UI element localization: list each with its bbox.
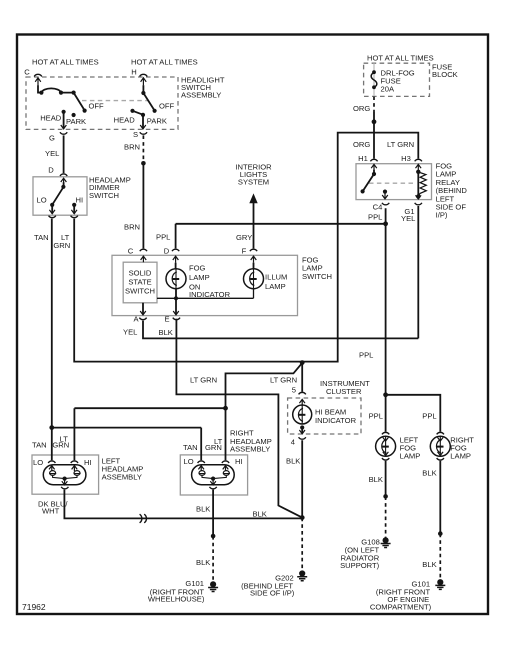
svg-text:SWITCH: SWITCH [125, 287, 155, 296]
svg-text:ASSEMBLY: ASSEMBLY [230, 444, 270, 453]
svg-text:BLK: BLK [196, 558, 210, 567]
svg-text:BLK: BLK [286, 457, 300, 466]
svg-text:5: 5 [292, 386, 296, 395]
svg-text:LO: LO [37, 196, 47, 205]
svg-text:H: H [131, 68, 136, 77]
svg-text:S: S [133, 130, 138, 139]
svg-text:71962: 71962 [22, 602, 46, 612]
svg-text:HEAD: HEAD [114, 116, 136, 125]
svg-text:PPL: PPL [156, 233, 170, 242]
svg-text:ORG: ORG [353, 104, 370, 113]
svg-text:BRN: BRN [124, 223, 140, 232]
svg-text:C: C [128, 247, 134, 256]
svg-text:GRN: GRN [205, 443, 222, 452]
svg-text:C: C [24, 68, 30, 77]
svg-text:BLK: BLK [422, 560, 436, 569]
svg-text:LT GRN: LT GRN [387, 140, 414, 149]
svg-text:SUPPORT): SUPPORT) [340, 561, 380, 570]
svg-text:G: G [49, 134, 55, 143]
svg-text:HI: HI [84, 458, 92, 467]
svg-text:HI: HI [235, 457, 243, 466]
svg-text:PPL: PPL [368, 213, 382, 222]
svg-text:LO: LO [33, 458, 43, 467]
svg-text:LAMP: LAMP [265, 282, 286, 291]
svg-text:FOG: FOG [189, 264, 206, 273]
svg-text:LAMP: LAMP [450, 452, 471, 461]
svg-text:WHT: WHT [42, 507, 60, 516]
svg-text:WHEELHOUSE): WHEELHOUSE) [148, 595, 205, 604]
svg-text:ORG: ORG [353, 140, 370, 149]
svg-text:BLK: BLK [253, 510, 267, 519]
svg-text:E: E [164, 315, 169, 324]
svg-text:H3: H3 [401, 154, 411, 163]
svg-text:ILLUM: ILLUM [265, 273, 287, 282]
svg-text:OFF: OFF [159, 102, 175, 111]
svg-text:SWITCH: SWITCH [89, 191, 119, 200]
svg-text:GRN: GRN [52, 441, 69, 450]
svg-text:HEAD: HEAD [40, 114, 62, 123]
svg-text:YEL: YEL [45, 149, 59, 158]
svg-text:LO: LO [184, 457, 194, 466]
svg-text:H1: H1 [358, 154, 368, 163]
svg-text:INDICATOR: INDICATOR [189, 290, 231, 299]
svg-text:BLK: BLK [159, 328, 173, 337]
svg-text:INDICATOR: INDICATOR [315, 416, 357, 425]
svg-text:HI: HI [76, 196, 84, 205]
svg-text:TAN: TAN [34, 233, 49, 242]
svg-text:I/P): I/P) [436, 211, 448, 220]
svg-text:STATE: STATE [128, 278, 151, 287]
svg-text:4: 4 [291, 438, 295, 447]
svg-text:D: D [164, 247, 170, 256]
svg-text:BLK: BLK [422, 469, 436, 478]
svg-text:BRN: BRN [124, 143, 140, 152]
svg-text:HOT AT ALL TIMES: HOT AT ALL TIMES [131, 58, 198, 67]
svg-text:BLK: BLK [196, 505, 210, 514]
svg-text:ASSEMBLY: ASSEMBLY [102, 473, 142, 482]
svg-text:YEL: YEL [401, 214, 415, 223]
svg-text:TAN: TAN [32, 441, 47, 450]
svg-text:ASSEMBLY: ASSEMBLY [181, 91, 221, 100]
svg-text:SIDE OF I/P): SIDE OF I/P) [250, 589, 295, 598]
svg-text:LT GRN: LT GRN [190, 376, 217, 385]
svg-text:YEL: YEL [123, 328, 137, 337]
svg-text:D: D [48, 166, 54, 175]
svg-text:OFF: OFF [89, 102, 105, 111]
svg-text:SWITCH: SWITCH [302, 272, 332, 281]
svg-text:TAN: TAN [183, 443, 198, 452]
svg-text:GRN: GRN [53, 241, 70, 250]
svg-text:LAMP: LAMP [189, 273, 210, 282]
svg-text:LT GRN: LT GRN [270, 376, 297, 385]
svg-text:SYSTEM: SYSTEM [238, 178, 269, 187]
svg-text:LAMP: LAMP [400, 452, 421, 461]
svg-text:PPL: PPL [359, 351, 373, 360]
svg-text:C4: C4 [373, 203, 383, 212]
svg-text:CLUSTER: CLUSTER [326, 387, 362, 396]
svg-text:HOT AT ALL TIMES: HOT AT ALL TIMES [367, 54, 434, 63]
svg-text:BLOCK: BLOCK [432, 70, 458, 79]
svg-text:PPL: PPL [422, 412, 436, 421]
svg-text:PARK: PARK [66, 117, 86, 126]
svg-text:BLK: BLK [369, 475, 383, 484]
svg-text:HOT AT ALL TIMES: HOT AT ALL TIMES [32, 58, 99, 67]
svg-text:F: F [242, 247, 247, 256]
svg-text:GRY: GRY [236, 233, 252, 242]
svg-text:SOLID: SOLID [129, 269, 152, 278]
svg-text:PARK: PARK [147, 117, 167, 126]
svg-text:PPL: PPL [369, 412, 383, 421]
svg-text:20A: 20A [381, 85, 395, 94]
svg-text:COMPARTMENT): COMPARTMENT) [370, 603, 432, 612]
